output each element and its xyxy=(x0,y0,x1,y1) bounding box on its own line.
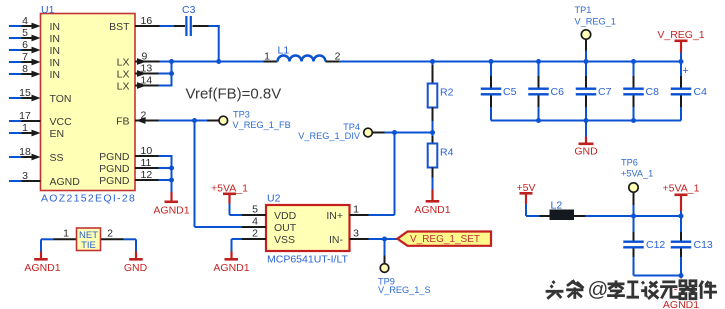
svg-text:C13: C13 xyxy=(694,239,713,251)
svg-text:IN: IN xyxy=(50,45,61,57)
capacitor C12 xyxy=(623,216,665,276)
svg-text:1: 1 xyxy=(22,122,28,134)
svg-text:16: 16 xyxy=(141,15,153,27)
svg-text:VSS: VSS xyxy=(274,234,295,246)
svg-text:2: 2 xyxy=(107,228,113,240)
capacitor C4 (polarized) xyxy=(671,62,707,121)
svg-text:TP1: TP1 xyxy=(575,5,592,15)
svg-text:+5VA_1: +5VA_1 xyxy=(663,183,700,195)
svg-text:C8: C8 xyxy=(646,86,660,98)
svg-text:TIE: TIE xyxy=(81,240,96,251)
svg-text:13: 13 xyxy=(141,63,153,75)
wire divider to TP4 xyxy=(373,132,433,134)
pin 10 PGND xyxy=(135,155,159,157)
svg-text:3: 3 xyxy=(353,228,359,240)
wire bottom GND rail xyxy=(491,120,681,122)
U1 left pin wires + numbers xyxy=(9,23,41,181)
svg-text:V_REG_1_S: V_REG_1_S xyxy=(378,285,431,295)
pin 6 IN xyxy=(9,47,41,54)
svg-text:IN: IN xyxy=(50,57,61,69)
svg-text:8: 8 xyxy=(22,63,28,75)
svg-text:L1: L1 xyxy=(278,45,290,57)
svg-text:2: 2 xyxy=(141,110,147,122)
svg-text:3: 3 xyxy=(22,170,28,182)
svg-text:R4: R4 xyxy=(440,147,454,159)
ground AGND1 (PGND net) xyxy=(153,192,189,217)
pin 5 IN xyxy=(9,35,41,42)
svg-text:V_REG_1: V_REG_1 xyxy=(575,17,616,27)
svg-text:12: 12 xyxy=(141,169,153,181)
svg-text:R2: R2 xyxy=(440,87,454,99)
svg-text:C4: C4 xyxy=(694,86,708,98)
ground AGND1 (below R4) xyxy=(414,190,450,217)
wire bottom rail C12-C13 xyxy=(634,275,682,277)
ic U2 MCP6541 xyxy=(252,193,359,266)
svg-text:15: 15 xyxy=(19,87,31,99)
svg-text:GND: GND xyxy=(124,262,148,274)
net flag V_REG_1_SET xyxy=(397,232,491,246)
svg-text:LX: LX xyxy=(117,80,130,92)
svg-text:AOZ2152EQI-28: AOZ2152EQI-28 xyxy=(41,193,136,205)
pin 9 LX xyxy=(135,58,160,65)
svg-text:10: 10 xyxy=(141,145,153,157)
svg-text:LX: LX xyxy=(117,68,130,80)
inductor L1 xyxy=(264,45,341,63)
svg-text:AGND1: AGND1 xyxy=(213,262,249,274)
testpoint TP9 xyxy=(378,239,431,295)
wire LX bus verticals xyxy=(159,62,264,87)
capacitor C7 xyxy=(576,62,612,121)
svg-text:PGND: PGND xyxy=(99,151,130,163)
wire net tie pin2 to GND xyxy=(124,239,137,251)
pin 7 IN xyxy=(9,59,41,66)
svg-text:C12: C12 xyxy=(646,239,665,251)
svg-text:6: 6 xyxy=(22,39,28,51)
svg-text:4: 4 xyxy=(252,216,258,228)
svg-text:MCP6541UT-I/LT: MCP6541UT-I/LT xyxy=(267,254,348,266)
U2 pin stubs xyxy=(242,215,369,239)
power port +5V xyxy=(517,182,536,216)
svg-text:2: 2 xyxy=(252,228,258,240)
power port V_REG_1 xyxy=(657,29,704,62)
pin 12 PGND xyxy=(135,179,159,181)
svg-text:AGND1: AGND1 xyxy=(153,205,189,217)
svg-text:TP3: TP3 xyxy=(233,110,250,120)
wire FB node down to U2 OUT xyxy=(195,121,243,228)
svg-text:OUT: OUT xyxy=(274,222,297,234)
svg-text:AGND1: AGND1 xyxy=(414,204,450,216)
wire FB to TP3 xyxy=(159,120,219,122)
svg-text:1: 1 xyxy=(264,51,270,63)
capacitor C13 xyxy=(671,216,713,276)
wire BST to C3 xyxy=(160,25,220,27)
svg-text:IN: IN xyxy=(50,21,61,33)
svg-text:PGND: PGND xyxy=(99,175,130,187)
svg-text:EN: EN xyxy=(50,128,65,140)
svg-text:C3: C3 xyxy=(182,4,196,16)
capacitor C6 xyxy=(528,62,564,121)
svg-text:14: 14 xyxy=(141,75,153,87)
capacitor C5 xyxy=(481,62,517,121)
pin 8 IN xyxy=(9,71,41,78)
svg-text:SS: SS xyxy=(50,152,64,164)
wire net tie pin1 to AGND1 xyxy=(41,239,54,251)
svg-text:1: 1 xyxy=(353,204,359,216)
svg-text:4: 4 xyxy=(22,15,28,27)
ground GND (below C7) xyxy=(574,121,598,158)
svg-text:IN+: IN+ xyxy=(326,210,343,222)
pin 11 PGND xyxy=(135,167,159,169)
wire TP4 node down to U2 IN+ xyxy=(369,133,395,216)
svg-text:V_REG_1_SET: V_REG_1_SET xyxy=(410,234,480,245)
svg-text:9: 9 xyxy=(142,51,148,63)
pin 18 SS xyxy=(9,154,41,161)
ground AGND1 (C13) xyxy=(663,276,699,309)
wire PGND bus to AGND1 xyxy=(159,155,173,192)
resistor R4 xyxy=(428,133,454,190)
wire VSS to AGND1 xyxy=(232,239,243,252)
svg-text:TP6: TP6 xyxy=(621,158,638,168)
pin 14 LX xyxy=(135,82,160,89)
ground GND (net tie) xyxy=(124,252,148,275)
svg-text:1: 1 xyxy=(63,228,69,240)
testpoint TP6 xyxy=(621,158,653,217)
svg-text:L2: L2 xyxy=(551,200,563,212)
ic U1 AOZ2152EQI-28 xyxy=(41,4,137,205)
testpoint TP1 xyxy=(575,5,616,62)
pin 1 EN xyxy=(9,130,41,137)
svg-text:VDD: VDD xyxy=(274,210,297,222)
svg-text:TON: TON xyxy=(50,93,72,105)
svg-text:18: 18 xyxy=(19,146,31,158)
wire C3 drop to LX rail xyxy=(218,25,220,62)
svg-text:LX: LX xyxy=(117,56,130,68)
testpoint TP3 xyxy=(219,110,291,131)
svg-text:FB: FB xyxy=(116,115,129,127)
net tie NT1 xyxy=(54,228,124,252)
watermark 头条@李工谈元器件 xyxy=(546,278,717,301)
inductor L2 (ferrite bead) xyxy=(540,200,586,221)
pin 16 BST xyxy=(135,25,160,27)
pin 2 FB xyxy=(135,117,159,124)
svg-text:C7: C7 xyxy=(598,86,612,98)
wire IN- to flag xyxy=(369,238,399,240)
pin 13 LX xyxy=(135,70,160,77)
testpoint TP4 xyxy=(298,122,372,141)
svg-text:7: 7 xyxy=(22,51,28,63)
ground AGND1 (U2 VSS) xyxy=(213,252,249,275)
svg-text:VCC: VCC xyxy=(50,116,73,128)
pin 3 AGND xyxy=(9,180,41,182)
svg-text:C5: C5 xyxy=(503,86,517,98)
svg-text:BST: BST xyxy=(109,21,130,33)
svg-text:AGND1: AGND1 xyxy=(24,262,60,274)
svg-text:11: 11 xyxy=(141,157,152,169)
svg-text:5: 5 xyxy=(252,204,258,216)
wire +5V to L2 xyxy=(526,215,540,217)
U1 right pin stubs + numbers xyxy=(135,26,160,180)
svg-text:V_REG_1_DIV: V_REG_1_DIV xyxy=(298,131,361,141)
svg-text:@: @ xyxy=(588,278,609,301)
resistor R2 xyxy=(428,62,454,133)
svg-text:5: 5 xyxy=(22,27,28,39)
svg-text:17: 17 xyxy=(19,110,31,122)
svg-text:GND: GND xyxy=(574,146,598,158)
svg-text:IN-: IN- xyxy=(329,234,344,246)
pin 4 IN xyxy=(9,23,41,30)
wire main output rail xyxy=(339,61,681,63)
power port +5VA_1 (U2 supply) xyxy=(211,183,248,216)
svg-text:IN: IN xyxy=(50,69,61,81)
svg-text:U1: U1 xyxy=(41,4,55,16)
wire L2 to +5VA_1 rail xyxy=(586,215,682,217)
capacitor C3 xyxy=(182,4,196,36)
svg-text:+: + xyxy=(682,65,688,77)
ground AGND1 (net tie) xyxy=(24,252,60,275)
svg-text:C6: C6 xyxy=(551,86,565,98)
svg-text:AGND: AGND xyxy=(50,176,81,188)
pin 17 VCC xyxy=(9,120,41,122)
svg-text:V_REG_1_FB: V_REG_1_FB xyxy=(233,120,291,130)
svg-text:PGND: PGND xyxy=(99,163,130,175)
svg-text:U2: U2 xyxy=(267,193,281,205)
svg-text:+5VA_1: +5VA_1 xyxy=(621,168,653,178)
capacitor C8 xyxy=(623,62,659,121)
svg-text:Vref(FB)=0.8V: Vref(FB)=0.8V xyxy=(186,86,282,103)
svg-text:V_REG_1: V_REG_1 xyxy=(657,29,704,41)
pin 15 TON xyxy=(9,95,41,102)
svg-text:IN: IN xyxy=(50,33,61,45)
power port +5VA_1 (right) xyxy=(663,183,700,217)
